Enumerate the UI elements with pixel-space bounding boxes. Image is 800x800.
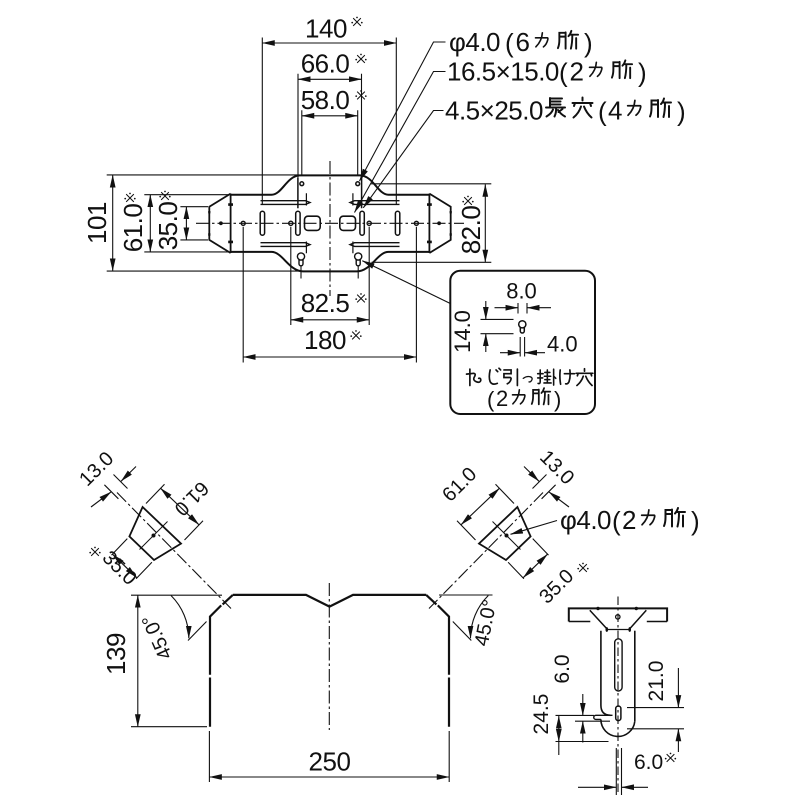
svg-text:35.0: 35.0 [153, 202, 183, 251]
dim 21.0 arrows [677, 668, 679, 708]
wing side edge stubs bottom [306, 242, 353, 254]
svg-text:250: 250 [309, 747, 351, 777]
svg-text:139: 139 [101, 633, 131, 675]
square hole 16.5x15 left [305, 216, 321, 230]
left flange hole cross tick [140, 522, 168, 550]
ext line E [627, 728, 684, 730]
dim 35 ext lines [180, 207, 208, 240]
hole phi4 near-fold-right [414, 221, 418, 225]
right fold line [428, 194, 430, 253]
hook finger [594, 715, 613, 719]
ext line D [627, 707, 684, 709]
svg-text:(: ( [612, 506, 621, 536]
stub below keyhole left [300, 266, 302, 278]
dim 58 ext lines [302, 110, 358, 175]
svg-text:140: 140 [305, 14, 347, 44]
top bar outline [569, 608, 667, 621]
right dim 13.0 arrows [524, 467, 539, 482]
svg-text:2: 2 [622, 505, 636, 535]
hole phi4 mid-right [367, 221, 371, 225]
dim 66 ext lines [298, 74, 362, 177]
svg-text:61.0: 61.0 [118, 204, 148, 253]
hole phi4 tongue-left [300, 182, 304, 186]
top bar bottom edges [569, 621, 667, 623]
bottom-left wing ledge [261, 243, 311, 247]
svg-text:4.5×25.0: 4.5×25.0 [445, 96, 543, 126]
dim 140 line [262, 42, 396, 44]
vertical centerline [329, 161, 331, 296]
dim 101 ext lines [107, 175, 304, 271]
svg-text:6.0: 6.0 [551, 654, 574, 683]
svg-text:(: ( [505, 28, 514, 58]
bubble frame [450, 271, 595, 414]
left fold tick marks [228, 205, 233, 242]
left dim 35.0 line [113, 554, 137, 578]
dim 14.0 ext lines [481, 319, 514, 333]
angle 45 left ext [188, 622, 207, 641]
svg-text:): ) [691, 506, 699, 536]
bottom-right wing ledge [350, 243, 400, 247]
right dim 35.0 line [523, 554, 547, 578]
angle 45 right ext-horiz [439, 594, 493, 596]
left tab edge notches [208, 212, 210, 234]
right dim 61.0 line [461, 488, 500, 525]
waist tick left [606, 627, 609, 632]
svg-text:21.0: 21.0 [645, 661, 668, 702]
front center line [328, 583, 330, 730]
svg-text:2: 2 [570, 57, 584, 87]
square hole 16.5x15 right [340, 216, 356, 230]
dim 82.5 ext lines [291, 227, 369, 325]
dim 6.0-bottom arrows [578, 786, 616, 788]
svg-text:6.0: 6.0 [634, 751, 663, 774]
dim 82.0 ext lines [371, 184, 491, 262]
left flange hole [152, 534, 156, 538]
left dim 35.0 ext ticks [112, 539, 152, 579]
left flange bend centerline [117, 493, 231, 609]
svg-text:16.5×15.0: 16.5×15.0 [447, 57, 559, 87]
dim 4.0 ticks [520, 337, 524, 357]
left dim 61.0 ext ticks [146, 484, 203, 540]
keyhole right [355, 253, 362, 266]
plate bottom edge with bottom tongue [231, 252, 430, 272]
svg-text:8.0: 8.0 [506, 279, 537, 304]
horizontal centerline [196, 222, 464, 224]
dim 61 line [149, 195, 151, 252]
dim 139 ext lines [131, 595, 222, 727]
dim 14.0 arrows [485, 301, 487, 319]
svg-text:): ) [584, 28, 592, 58]
angle 45 right arc [471, 596, 489, 639]
svg-text:66.0: 66.0 [301, 49, 350, 79]
detail keyhole glyph [519, 321, 526, 333]
left flange outline [129, 507, 181, 560]
svg-text:): ) [677, 97, 685, 127]
text neji-hikkake-ana [467, 369, 481, 385]
right tab edge notches [450, 212, 452, 234]
hole phi4 side [616, 615, 620, 619]
stem left edge with hook curve [601, 631, 611, 716]
svg-text:4: 4 [608, 96, 622, 126]
dim 101 line [112, 175, 114, 271]
top tongue side edges [298, 177, 362, 208]
svg-text:6: 6 [516, 27, 530, 57]
top edge dot left [596, 607, 599, 610]
outline top with center notch [233, 595, 426, 607]
dim 8.0 ticks [518, 303, 527, 314]
svg-text:2: 2 [496, 386, 508, 411]
dim 4.0 lines with arrows [500, 352, 520, 354]
right flange hole cross tick [493, 522, 521, 550]
right flange hole [505, 534, 509, 538]
stem right edge [634, 631, 636, 722]
leader 16.5x15.0 [355, 72, 446, 213]
leader phi4.0 (2 places) [511, 521, 558, 535]
dim 6.0 arrows [582, 694, 584, 715]
hole phi4 tongue-right [356, 182, 360, 186]
svg-text:φ4.0: φ4.0 [449, 27, 500, 57]
wing side edge stubs top [306, 193, 353, 205]
leader 4.5x25.0 [363, 111, 443, 208]
dim 6.0-bottom ext lines [616, 748, 621, 795]
dim 82.5 line [291, 319, 369, 321]
right flange bend centerline [429, 493, 543, 609]
keyhole slot profile [616, 706, 621, 721]
dim 180 ext lines [243, 227, 416, 363]
right dim 61.0 ext ticks [457, 484, 514, 540]
left end tab [209, 194, 230, 253]
dim 61 ext lines [144, 195, 229, 252]
dim 35 line [185, 207, 187, 240]
left dim 13.0 arrows [121, 467, 136, 482]
ext line A [556, 714, 595, 716]
svg-text:82.0: 82.0 [456, 206, 486, 255]
svg-text:(: ( [559, 58, 568, 88]
hole phi4 mid-left [289, 221, 293, 225]
right fold tick marks [427, 205, 432, 242]
slot 4.5x25 inner-right [360, 211, 364, 235]
dim 24.5 line [558, 716, 560, 742]
svg-text:180: 180 [304, 325, 346, 355]
dim 180 line [243, 356, 416, 358]
waist line [607, 629, 630, 631]
dim 139 line [137, 595, 139, 727]
svg-text:(: ( [598, 97, 607, 127]
svg-text:): ) [554, 387, 561, 412]
svg-text:24.5: 24.5 [530, 694, 553, 735]
angle 45 left arc [171, 596, 189, 639]
bubble leader to keyhole [362, 261, 450, 304]
right flange outline [479, 507, 531, 560]
leader phi4.0 [360, 42, 446, 181]
svg-text:): ) [638, 58, 646, 88]
dim 24.5 tail [558, 742, 560, 756]
angle 45 right ext [453, 622, 472, 641]
left fold line [230, 194, 232, 253]
top-left wing ledge [261, 201, 311, 205]
ext line B [575, 720, 610, 722]
plate top edge with tongue [231, 175, 430, 194]
waist tick right [628, 627, 631, 632]
right end tab [429, 194, 450, 253]
hole phi4 near-fold-left [241, 221, 245, 225]
outline left side [210, 595, 233, 727]
side center line [617, 597, 619, 796]
svg-text:58.0: 58.0 [301, 85, 350, 115]
svg-text:4.0: 4.0 [547, 332, 578, 357]
left dim 61.0 line [161, 488, 200, 525]
svg-text:φ4.0: φ4.0 [560, 505, 611, 535]
slot in stem [615, 639, 622, 691]
dim 250 line [209, 776, 449, 778]
dim 58 line [302, 115, 358, 117]
svg-text:82.5: 82.5 [301, 288, 350, 318]
flange hole left (in tab) [219, 221, 223, 225]
dim 82.0 line [484, 184, 486, 262]
dim 8.0 lines with arrows [495, 307, 519, 309]
dim 250 ext lines [209, 731, 449, 782]
ext line C [556, 741, 609, 743]
dim 66 line [298, 78, 362, 80]
bottom arc [601, 719, 635, 736]
wing diagonals [590, 610, 647, 629]
slot 4.5x25 outer-left [260, 211, 264, 235]
outline right side [426, 595, 449, 727]
stub below keyhole right [357, 266, 359, 278]
keyhole left [297, 253, 304, 266]
flange hole right (in tab) [437, 221, 441, 225]
right dim 35.0 ext ticks [508, 539, 548, 579]
slot 4.5x25 inner-left [296, 211, 300, 235]
top edge dot right [635, 607, 638, 610]
svg-text:14.0: 14.0 [450, 310, 475, 353]
slot 4.5x25 outer-right [395, 211, 399, 235]
svg-text:(: ( [487, 387, 495, 412]
dim 140 ext lines [262, 38, 396, 206]
right dim 13.0 ext ticks [533, 475, 556, 499]
left dim 13.0 ext ticks [104, 475, 127, 499]
svg-text:101: 101 [82, 202, 112, 244]
top-right wing ledge [350, 201, 400, 205]
